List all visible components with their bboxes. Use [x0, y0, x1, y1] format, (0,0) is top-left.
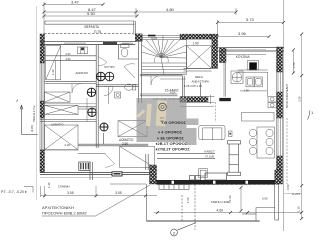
svg-text:ΧΟΛ: ΧΟΛ: [170, 90, 176, 94]
svg-text:4.04: 4.04: [151, 36, 157, 40]
svg-text:ΑΡΧΙΤΕΚΤΟΝΙΚΗ: ΑΡΧΙΤΕΚΤΟΝΙΚΗ: [42, 205, 74, 210]
svg-text:1.50: 1.50: [186, 197, 190, 203]
svg-text:1.40: 1.40: [51, 69, 55, 75]
svg-text:ΛΟΥΤΡΟ: ΛΟΥΤΡΟ: [104, 65, 115, 69]
svg-text:ΣΤΑΘΜΗ: ΣΤΑΘΜΗ: [58, 185, 70, 189]
svg-text:2.90: 2.90: [66, 53, 71, 56]
svg-text:1.90: 1.90: [193, 42, 199, 46]
svg-text:0.90: 0.90: [262, 197, 268, 201]
svg-text:3.50: 3.50: [122, 142, 128, 146]
svg-text:ΠΡΟΣΟΨΗ ΕΜΒ.2.60Μ2: ΠΡΟΣΟΨΗ ΕΜΒ.2.60Μ2: [42, 211, 87, 216]
svg-text:4.60: 4.60: [217, 209, 224, 213]
svg-text:(4.05): (4.05): [30, 125, 34, 132]
svg-text:♦ 4 ΟΡΟΦΟΣ: ♦ 4 ΟΡΟΦΟΣ: [158, 130, 183, 135]
svg-text:♦ 3Ε ΟΡΟΦΟΣ: ♦ 3Ε ΟΡΟΦΟΣ: [157, 136, 184, 141]
svg-text:Π.75: Π.75: [94, 30, 101, 34]
svg-text:0.90: 0.90: [286, 184, 290, 190]
svg-text:37.1Μ2: 37.1Μ2: [205, 155, 215, 159]
svg-text:3.90: 3.90: [66, 58, 71, 61]
svg-text:ΚΟΥΖΙΝΑ: ΚΟΥΖΙΝΑ: [236, 55, 251, 59]
svg-text:2.20: 2.20: [65, 143, 71, 147]
svg-text:5.73: 5.73: [246, 17, 255, 22]
svg-text:ΑΝΕΛ/ΣΤΗΡΑ: ΑΝΕΛ/ΣΤΗΡΑ: [192, 79, 210, 83]
svg-text:Α +0.5: Α +0.5: [292, 192, 300, 196]
svg-text:ΠΡΑΣΙΑ 3.75μ: ΠΡΑΣΙΑ 3.75μ: [32, 105, 36, 122]
svg-text:3.47: 3.47: [71, 0, 80, 4]
svg-text:1.98: 1.98: [244, 89, 250, 93]
svg-text:3.05: 3.05: [67, 191, 74, 195]
svg-text:3.05: 3.05: [115, 191, 122, 195]
svg-text:ΔΩΜΑΤΙΟ: ΔΩΜΑΤΙΟ: [76, 71, 89, 75]
svg-text:♦2ΤΒ.2Τ ΟΡΟΦΟΣ: ♦2ΤΒ.2Τ ΟΡΟΦΟΣ: [156, 147, 191, 152]
svg-text:9.30: 9.30: [87, 11, 96, 16]
svg-text:3.96: 3.96: [238, 31, 247, 36]
svg-text:ΣΚΕΠΗ 2.39Μ2: ΣΚΕΠΗ 2.39Μ2: [211, 200, 231, 204]
svg-text:ΚΑΘΙΣΤ.: ΚΑΘΙΣΤ.: [205, 150, 216, 154]
svg-text:ΔΩΜΑΤΙΟ: ΔΩΜΑΤΙΟ: [51, 123, 64, 127]
svg-text:ΒΕΡΑΝΤΑ: ΒΕΡΑΝΤΑ: [85, 25, 100, 29]
svg-text:1.05 2.05 1.10: 1.05 2.05 1.10: [184, 84, 202, 88]
svg-text:1.50: 1.50: [292, 62, 296, 68]
svg-text:1.10: 1.10: [297, 206, 301, 212]
svg-text:3.30: 3.30: [298, 96, 302, 102]
svg-text:1.30: 1.30: [47, 182, 51, 188]
svg-text:Ρ.Γ. -0.7, -0.20 ♦: Ρ.Γ. -0.7, -0.20 ♦: [1, 190, 27, 194]
svg-text:♦2Β.1Τ ΟΡΟΦΟΣ: ♦2Β.1Τ ΟΡΟΦΟΣ: [156, 141, 188, 146]
svg-text:4.80: 4.80: [166, 7, 175, 12]
svg-text:Τ.Θ ΟΡΟΦΟΣ: Τ.Θ ΟΡΟΦΟΣ: [161, 120, 187, 125]
svg-text:ΟΡΙΟ ΟΙΚΟΠΕΔΟΥ: ΟΡΙΟ ΟΙΚΟΠΕΔΟΥ: [285, 84, 289, 108]
